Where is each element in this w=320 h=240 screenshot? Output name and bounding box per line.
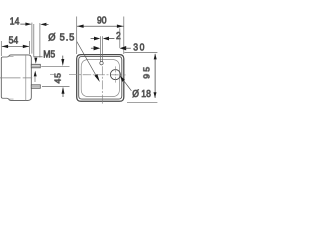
dimension 45 arrows (61, 56, 64, 97)
circle D18 (110, 70, 120, 80)
dimension 90 (77, 25, 124, 28)
dimension 90 extension lines (77, 17, 124, 55)
svg-text:Ø 18: Ø 18 (132, 88, 151, 100)
front view outer outline (77, 55, 124, 102)
M5 arrow lower tail (34, 76, 36, 82)
dimension 45 extension lines (41, 66, 69, 86)
front view second outline (79, 56, 122, 99)
left view plate line (25, 55, 27, 100)
left view centerline (0, 77, 32, 79)
svg-text:14: 14 (10, 16, 20, 28)
circle D18 vertical centerline (114, 66, 116, 82)
M5 arrow lower (34, 71, 37, 77)
dimension 95 extension lines (124, 52, 157, 102)
horizontal centerline (50, 73, 54, 75)
M5 leader line (34, 56, 43, 58)
keyhole circle (100, 61, 103, 64)
front view inner face (81, 60, 119, 97)
svg-text:54: 54 (9, 35, 19, 47)
dimension 14 extension lines (32, 23, 40, 58)
left view top step lip (8, 55, 13, 57)
dimension 95 (154, 54, 157, 98)
D18 leader (120, 76, 131, 91)
svg-text:95: 95 (141, 65, 151, 79)
stud M5 bottom (31, 85, 40, 89)
svg-text:M5: M5 (43, 49, 55, 61)
svg-text:45: 45 (53, 72, 63, 83)
stud M5 top (31, 64, 40, 68)
svg-text:Ø 5.5: Ø 5.5 (48, 32, 75, 44)
dimension 2 (91, 37, 115, 41)
dimension 30 extension line (119, 28, 121, 48)
left view bottom step lip (8, 98, 13, 100)
vertical centerline (101, 66, 103, 105)
svg-text:30: 30 (133, 42, 146, 54)
dimension 14 arrows (20, 23, 48, 27)
M5 arrow upper (34, 58, 37, 64)
D5.5 leader (77, 42, 100, 83)
dimension 30 (91, 46, 131, 50)
svg-text:90: 90 (97, 15, 107, 27)
keyhole slot lines (100, 36, 102, 62)
dimension 54 (1, 41, 29, 56)
left view body outline (1, 55, 31, 101)
